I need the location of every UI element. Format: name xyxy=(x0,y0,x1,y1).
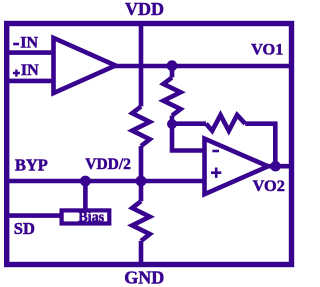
wire +IN input xyxy=(9,79,54,84)
border frame of IC block xyxy=(7,24,292,265)
resistor R4 feedback xyxy=(206,115,245,131)
svg-text:IN: IN xyxy=(21,62,39,79)
node dot R3 / feedback junction xyxy=(167,119,177,129)
svg-text:VO1: VO1 xyxy=(251,40,283,59)
node dot VDD/2 divider junction xyxy=(136,176,147,187)
svg-text:Bias: Bias xyxy=(78,209,104,225)
U2 minus sign xyxy=(212,150,219,153)
svg-text:VDD: VDD xyxy=(125,0,164,19)
svg-text:BYP: BYP xyxy=(15,156,48,175)
node dot Bias tap on VDD/2 rail xyxy=(80,176,91,187)
Bias block box xyxy=(62,210,110,223)
wire VDD/2 node down xyxy=(139,181,144,201)
svg-text:GND: GND xyxy=(124,268,164,287)
node dot VO2 output junction xyxy=(270,161,281,172)
wire R2 to GND rail xyxy=(139,241,144,264)
wire VDD/2 node to Bias block xyxy=(83,181,88,210)
node dot VO1 junction xyxy=(167,60,178,71)
resistor R3 (VO1 to U2 inverting input) xyxy=(163,77,180,115)
wire U1 output to VO1 xyxy=(113,64,291,69)
resistor R1 (VDD to VDD/2) xyxy=(132,106,150,146)
label +IN xyxy=(13,70,20,77)
wire R3 to node xyxy=(170,116,175,124)
wire U2 output to VO2 xyxy=(265,164,291,169)
wire VO1 node down to resistor xyxy=(170,66,175,78)
svg-text:VDD/2: VDD/2 xyxy=(85,156,131,173)
wire -IN input xyxy=(9,50,54,55)
resistor R2 (VDD/2 to GND) xyxy=(132,201,150,241)
svg-text:SD: SD xyxy=(14,219,35,238)
svg-text:IN: IN xyxy=(20,35,38,52)
wire node to U2 inverting input xyxy=(172,124,206,151)
wire SD input to Bias block xyxy=(9,213,62,218)
wire node to feedback resistor xyxy=(172,121,206,126)
svg-text:VO2: VO2 xyxy=(253,176,285,195)
wire BYP / VDD/2 rail to U2 non-inverting input xyxy=(9,179,206,184)
op-amp U2 xyxy=(205,139,269,195)
wire R1 to VDD/2 node xyxy=(139,146,144,181)
op-amp U1 xyxy=(54,38,116,93)
wire feedback to VO2 node xyxy=(245,124,275,167)
label -IN xyxy=(13,43,19,46)
U2 plus sign xyxy=(211,168,221,178)
wire VDD rail top segment xyxy=(139,24,144,106)
